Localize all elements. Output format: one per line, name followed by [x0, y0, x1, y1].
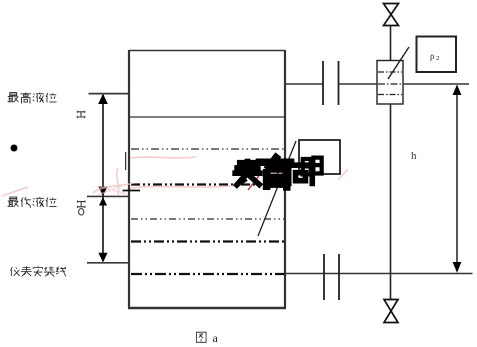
pot level dash-dot lines — [378, 71, 402, 73]
arrowhead up at top line — [453, 85, 462, 96]
wire pot to right — [403, 83, 469, 85]
dimension line h — [456, 86, 458, 271]
density label box rho1 — [299, 140, 340, 174]
dimension line H / H0 — [102, 95, 104, 261]
top vent valve — [384, 4, 399, 26]
extension line max level — [89, 93, 130, 95]
wire flange to condensate pot — [340, 83, 378, 85]
bullet point — [11, 145, 18, 152]
pot gauge diagonal — [388, 47, 409, 79]
arrowhead up at max level — [98, 94, 108, 104]
red correction slashes — [248, 159, 291, 190]
level dash-dot line 5 (heavy) — [131, 273, 284, 275]
wire pot down through bottom line — [390, 104, 392, 299]
arrowhead up below min level — [99, 197, 107, 206]
extension line instrument mounting — [87, 262, 130, 264]
upper isolation flange bars — [322, 61, 324, 105]
bottom drain valve — [384, 300, 398, 323]
density label box rho2 — [417, 37, 457, 73]
bottom impulse line — [285, 273, 473, 275]
wire valve to pot — [390, 26, 392, 60]
svg-text:a: a — [213, 331, 219, 345]
level dash-dot line 2 (heavy) — [131, 183, 284, 185]
correction stub at left edge — [123, 190, 141, 192]
label 仪表安装线 — [10, 266, 66, 276]
label H (rotated) — [77, 111, 85, 119]
arrowhead down at mounting line — [98, 253, 107, 263]
correction stroke doubled tank edge — [125, 152, 127, 170]
label 最高液位 — [8, 92, 57, 103]
tank vessel — [128, 50, 286, 308]
label H0 (rotated) — [77, 200, 85, 215]
leader line to rho1 box — [258, 141, 296, 236]
lower isolation flange bars — [323, 254, 325, 300]
condensate pot — [377, 61, 403, 105]
svg-text:h: h — [411, 150, 417, 162]
level dash-dot line 3 — [131, 218, 284, 220]
extension line min level — [87, 195, 129, 197]
arrowhead down at min level — [98, 187, 107, 197]
bold overlay text 表有问.. — [232, 155, 321, 191]
level dash-dot line 4 (heavy) — [131, 240, 284, 242]
caption 图 a — [196, 331, 218, 345]
svg-text:ρ 2: ρ 2 — [430, 51, 439, 62]
wire tank to upper flange — [285, 83, 323, 85]
level dash-dot line 1 — [131, 148, 284, 150]
label 最低液位 — [8, 197, 57, 208]
arrowhead down at bottom line — [453, 262, 462, 273]
pink correction scribbles — [2, 157, 348, 196]
liquid surface solid line — [129, 116, 285, 118]
